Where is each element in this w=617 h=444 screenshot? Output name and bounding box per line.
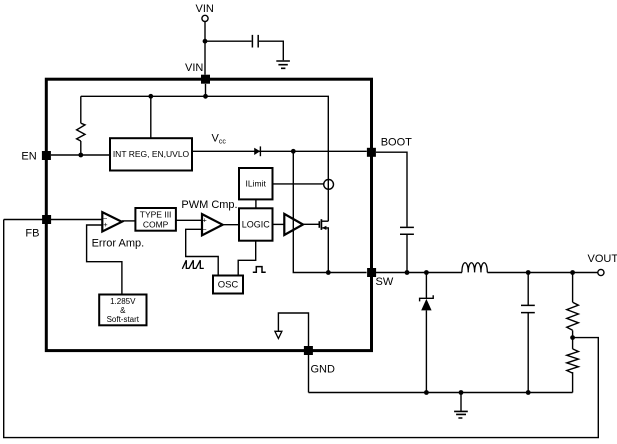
svg-text:FB: FB bbox=[25, 228, 39, 240]
svg-text:INT REG, EN,UVLO: INT REG, EN,UVLO bbox=[113, 149, 190, 159]
svg-text:&: & bbox=[120, 306, 126, 315]
svg-text:VIN: VIN bbox=[185, 62, 203, 74]
svg-text:TYPE III: TYPE III bbox=[140, 210, 172, 220]
svg-text:COMP: COMP bbox=[143, 220, 169, 230]
svg-text:VOUT: VOUT bbox=[588, 253, 617, 265]
svg-text:1.285V: 1.285V bbox=[110, 297, 136, 306]
svg-text:LOGIC: LOGIC bbox=[242, 220, 271, 230]
svg-text:OSC: OSC bbox=[218, 280, 239, 291]
svg-text:Soft-start: Soft-start bbox=[107, 315, 140, 324]
svg-text:+: + bbox=[103, 220, 108, 229]
svg-text:EN: EN bbox=[21, 151, 36, 163]
svg-text:+: + bbox=[202, 216, 207, 225]
svg-text:ILimit: ILimit bbox=[246, 179, 267, 189]
svg-text:−: − bbox=[202, 225, 207, 234]
svg-text:GND: GND bbox=[311, 364, 336, 376]
svg-text:BOOT: BOOT bbox=[381, 137, 412, 149]
svg-text:VIN: VIN bbox=[196, 3, 214, 15]
svg-text:Error Amp.: Error Amp. bbox=[92, 238, 145, 250]
svg-text:PWM Cmp.: PWM Cmp. bbox=[181, 199, 237, 211]
svg-text:SW: SW bbox=[376, 276, 394, 288]
